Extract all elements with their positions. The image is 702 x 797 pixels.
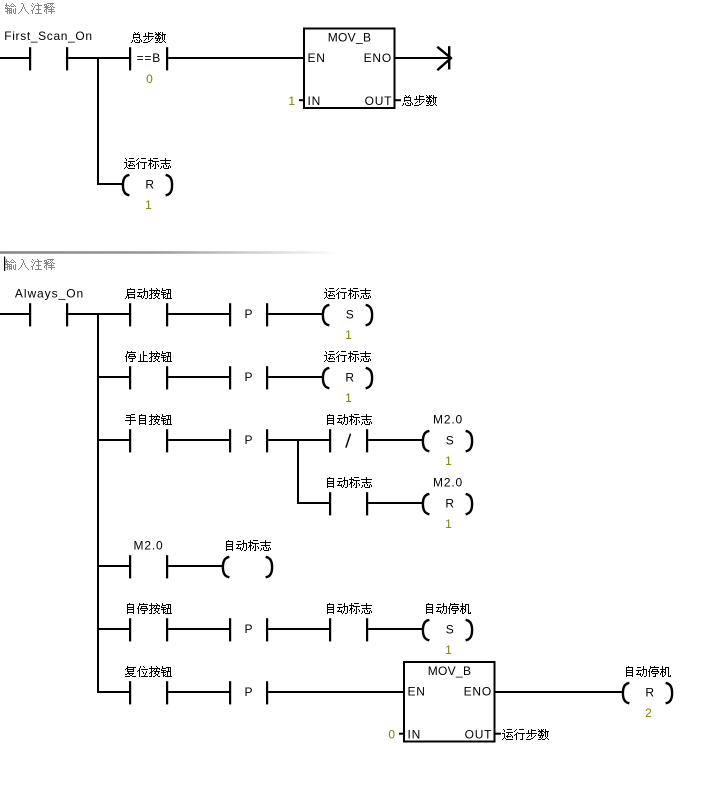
svg-text:M2.0: M2.0 (134, 539, 164, 553)
contact "自动标志" row5 (329, 618, 331, 641)
wire ENO to coil (494, 691, 622, 693)
svg-text:ENO: ENO (364, 51, 392, 65)
svg-text:0: 0 (388, 728, 395, 742)
box MOV_B U2 (404, 662, 495, 742)
contact First_Scan_On (29, 47, 31, 70)
positive edge contact P row2 (229, 366, 231, 389)
coil R M2.0 value 1 (423, 494, 428, 514)
wire (168, 439, 229, 441)
svg-text:ENO: ENO (464, 685, 492, 699)
wire (268, 313, 322, 315)
contact M2.0 row4 (129, 555, 131, 578)
wire (268, 376, 322, 378)
svg-text:First_Scan_On: First_Scan_On (4, 29, 92, 43)
contact "启动按钮" (129, 303, 131, 326)
svg-text:EN: EN (408, 685, 426, 699)
svg-text:2: 2 (645, 706, 652, 720)
wire (268, 628, 330, 630)
contact "自动标志" row3b (329, 492, 331, 515)
svg-text:R: R (145, 178, 154, 192)
wire (168, 691, 229, 693)
network 1 title comment "输入注释" (5, 3, 55, 14)
svg-text:1: 1 (345, 391, 352, 405)
sub-branch wire to contact (297, 502, 330, 504)
positive edge contact P row6 (229, 681, 231, 704)
positive edge contact P row5 (229, 618, 231, 641)
wire (368, 502, 422, 504)
branch stub wire row2 (97, 376, 129, 378)
svg-text:M2.0: M2.0 (433, 413, 463, 427)
contact "复位按钮" (129, 681, 131, 704)
pin IN input tick and value 1 (299, 99, 304, 101)
wire left power rail to contact First_Scan_On (0, 57, 29, 59)
wire Always_On to contact, junction node at x97 (68, 313, 129, 315)
wire left power rail to contact Always_On (0, 313, 29, 315)
text cursor caret (4, 257, 5, 272)
coil R "自动停机" value 2 (623, 683, 628, 703)
main branch wire down x97 (97, 313, 99, 693)
wire contact First_Scan_On to compare contact, junction node at x97 (68, 57, 129, 59)
pin OUT tick and operand "总步数" (396, 99, 402, 101)
branch stub wire row6 (97, 691, 129, 693)
svg-text:IN: IN (308, 94, 322, 108)
coil S "自动停机" value 1 (423, 620, 428, 640)
svg-text:S: S (446, 623, 454, 637)
svg-text:M2.0: M2.0 (433, 476, 463, 490)
svg-text:MOV_B: MOV_B (328, 30, 372, 44)
compare contact ==B "总步数" value 0 (129, 47, 131, 70)
svg-text:OUT: OUT (365, 94, 393, 108)
wire with sub-branch junction at x297 (268, 439, 330, 441)
branch stub wire row5 (97, 628, 129, 630)
branch wire to coil R (97, 183, 123, 185)
network 2 title comment "输入注释" (5, 259, 55, 270)
coil R "运行标志" value 1 row2 (323, 368, 328, 388)
positive edge contact P row3 (229, 429, 231, 452)
svg-text:Always_On: Always_On (15, 287, 84, 301)
coil R "运行标志" value 1 (123, 175, 128, 195)
svg-text:P: P (244, 433, 252, 447)
wire (368, 628, 422, 630)
svg-text:1: 1 (345, 328, 352, 342)
wire (168, 565, 222, 567)
svg-text:1: 1 (288, 94, 295, 108)
NC contact "自动标志" row3 (329, 429, 331, 452)
svg-text:S: S (346, 308, 354, 322)
svg-text:1: 1 (445, 643, 452, 657)
sub-branch wire down x297 (297, 439, 299, 504)
wire to MOV_B EN (268, 691, 405, 693)
svg-text:OUT: OUT (465, 727, 493, 741)
box MOV_B U1 (304, 29, 395, 109)
contact "自停按钮" (129, 618, 131, 641)
svg-text:P: P (244, 370, 252, 384)
wire (168, 628, 229, 630)
rung open-end arrow (448, 46, 450, 69)
svg-text:S: S (446, 434, 454, 448)
pin IN input tick and value 0 (399, 733, 404, 735)
svg-text:IN: IN (408, 727, 422, 741)
branch stub wire row3 (97, 439, 129, 441)
coil S "运行标志" value 1 (323, 305, 328, 325)
contact "手自按钮" (129, 429, 131, 452)
svg-text:R: R (345, 371, 354, 385)
svg-text:0: 0 (146, 72, 153, 86)
svg-text:P: P (244, 685, 252, 699)
branch wire down from junction x97 (97, 57, 99, 185)
coil "自动标志" row4 (223, 557, 228, 577)
svg-text:1: 1 (445, 454, 452, 468)
contact "停止按钮" (129, 366, 131, 389)
wire (168, 313, 229, 315)
coil S M2.0 value 1 (423, 431, 428, 451)
svg-text:MOV_B: MOV_B (428, 664, 472, 678)
svg-text:1: 1 (145, 198, 152, 212)
contact Always_On (29, 303, 31, 326)
svg-text:==B: ==B (137, 51, 161, 65)
wire (368, 439, 422, 441)
svg-text:EN: EN (308, 51, 326, 65)
svg-text:P: P (244, 622, 252, 636)
positive edge contact P row1 (229, 303, 231, 326)
wire (168, 376, 229, 378)
svg-text:P: P (244, 307, 252, 321)
wire ENO to rung end arrow (394, 57, 449, 59)
svg-text:R: R (645, 686, 654, 700)
branch stub wire row4 (97, 565, 129, 567)
wire compare contact to MOV_B EN (168, 57, 305, 59)
pin OUT tick and operand "运行步数" (496, 733, 502, 735)
svg-text:1: 1 (445, 517, 452, 531)
svg-text:R: R (445, 497, 454, 511)
